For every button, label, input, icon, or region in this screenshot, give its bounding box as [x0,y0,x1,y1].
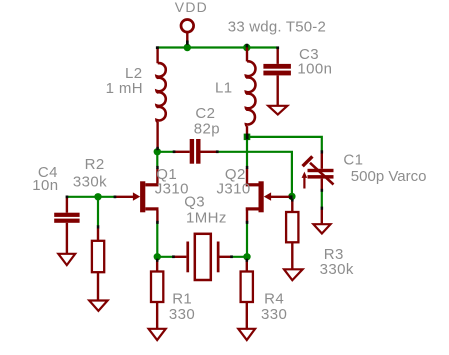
svg-text:1 mH: 1 mH [106,80,143,97]
svg-text:R2: R2 [85,156,105,173]
svg-text:J310: J310 [217,181,251,198]
svg-text:500p Varco: 500p Varco [351,168,427,185]
svg-text:330: 330 [169,306,195,323]
svg-text:10n: 10n [32,177,58,194]
svg-text:330k: 330k [320,261,354,278]
svg-text:1MHz: 1MHz [186,210,227,227]
svg-text:330: 330 [261,306,287,323]
svg-text:330k: 330k [73,174,107,191]
svg-text:82p: 82p [194,120,220,137]
svg-text:VDD: VDD [175,0,208,15]
svg-text:Q3: Q3 [184,194,205,211]
svg-text:33 wdg. T50-2: 33 wdg. T50-2 [228,19,326,36]
svg-text:C1: C1 [343,151,363,168]
svg-text:R1: R1 [172,290,192,307]
svg-text:L1: L1 [215,80,233,97]
svg-text:R4: R4 [264,290,284,307]
svg-text:100n: 100n [297,61,332,78]
